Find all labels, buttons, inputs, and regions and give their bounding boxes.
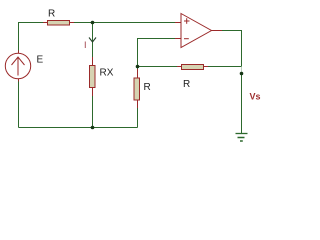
resistor R2 (feedback horizontal): [177, 65, 208, 70]
wire RX branch vertical: [92, 23, 94, 128]
wire top horizontal from E to op-amp + input: [19, 23, 182, 54]
resistor RX (vertical): [90, 57, 96, 96]
wire feedback row horizontal: [138, 66, 242, 68]
node Vs probe dot: [240, 72, 244, 76]
wire left vertical below E source: [18, 79, 20, 128]
wire R3 branch vertical: [137, 67, 139, 128]
current arrow I: [89, 38, 96, 43]
probe pin faint segment: [241, 67, 243, 73]
node feedback junction dot: [136, 65, 140, 69]
ground: [236, 134, 248, 142]
current source E: [5, 51, 30, 82]
resistor R3 (vertical): [134, 69, 140, 108]
svg-text:R: R: [144, 82, 151, 93]
svg-text:RX: RX: [100, 68, 114, 79]
svg-text:Vs: Vs: [250, 92, 261, 102]
wire bottom horizontal: [19, 127, 138, 129]
resistor R1 (top horizontal): [43, 21, 74, 26]
svg-text:I: I: [84, 40, 87, 50]
wire op-amp output to node: [219, 31, 242, 67]
node bottom junction dot: [91, 126, 95, 130]
op-amp U1: [175, 14, 222, 48]
svg-text:R: R: [48, 9, 55, 20]
wire inverting input to feedback node: [138, 39, 179, 67]
node A junction dot (top): [91, 21, 95, 25]
wire probe to ground: [241, 74, 243, 134]
svg-text:R: R: [183, 79, 190, 90]
svg-text:E: E: [37, 55, 44, 66]
